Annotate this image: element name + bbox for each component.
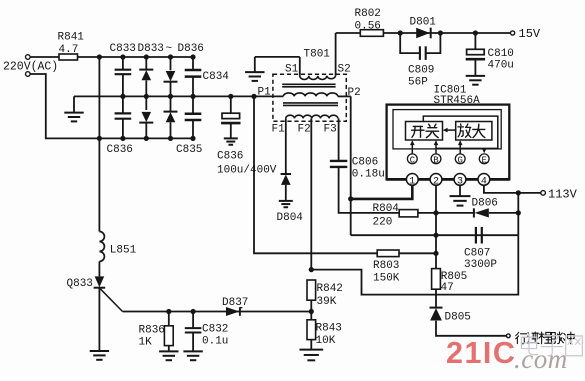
svg-text:C810: C810 xyxy=(488,48,514,60)
svg-text:1K: 1K xyxy=(139,337,153,349)
svg-text:0.18u: 0.18u xyxy=(352,168,385,180)
svg-text:R804: R804 xyxy=(373,203,400,215)
svg-text:C835: C835 xyxy=(176,144,202,156)
svg-text:C807: C807 xyxy=(464,247,490,259)
svg-text:L851: L851 xyxy=(110,244,137,256)
svg-text:STR456A: STR456A xyxy=(434,95,481,107)
svg-text:D801: D801 xyxy=(410,17,437,29)
svg-text:150K: 150K xyxy=(373,273,400,285)
svg-text:D836: D836 xyxy=(178,43,204,55)
svg-text:F1: F1 xyxy=(272,124,286,136)
svg-text:C836: C836 xyxy=(107,144,133,156)
svg-text:C: C xyxy=(410,155,416,165)
svg-text:C836: C836 xyxy=(217,150,243,162)
svg-text:D806: D806 xyxy=(472,198,498,210)
svg-text:~: ~ xyxy=(166,43,173,55)
svg-text:F2: F2 xyxy=(298,124,311,136)
svg-text:10K: 10K xyxy=(316,335,336,347)
svg-text:470u: 470u xyxy=(488,59,514,71)
svg-text:P1: P1 xyxy=(258,86,272,98)
svg-text:F3: F3 xyxy=(324,124,337,136)
svg-text:39K: 39K xyxy=(317,296,337,308)
svg-text:56P: 56P xyxy=(408,77,428,89)
svg-text:R841: R841 xyxy=(58,31,85,43)
svg-text:220: 220 xyxy=(373,216,393,228)
svg-text:113V: 113V xyxy=(548,187,578,201)
svg-text:220V(AC): 220V(AC) xyxy=(3,61,58,74)
svg-text:21IC: 21IC xyxy=(446,336,516,370)
svg-text:0.56: 0.56 xyxy=(355,21,381,33)
svg-text:G: G xyxy=(457,155,462,165)
svg-text:0.1u: 0.1u xyxy=(202,336,228,348)
svg-text:E: E xyxy=(481,155,486,165)
svg-text:D805: D805 xyxy=(445,312,471,324)
svg-text:3300P: 3300P xyxy=(464,259,497,271)
svg-text:47: 47 xyxy=(441,282,454,294)
svg-text:Q833: Q833 xyxy=(67,278,93,290)
svg-text:C833: C833 xyxy=(110,43,136,55)
svg-text:R836: R836 xyxy=(139,325,165,337)
svg-text:C834: C834 xyxy=(203,71,230,83)
svg-text:R803: R803 xyxy=(373,260,399,272)
svg-text:R842: R842 xyxy=(317,283,343,295)
svg-text:S2: S2 xyxy=(338,64,351,76)
svg-text:T801: T801 xyxy=(304,49,331,61)
svg-text:C806: C806 xyxy=(352,156,378,168)
svg-text:R843: R843 xyxy=(316,322,342,334)
svg-text:S1: S1 xyxy=(285,64,299,76)
svg-text:4.7: 4.7 xyxy=(59,44,79,56)
svg-text:D837: D837 xyxy=(222,297,248,309)
svg-text:15V: 15V xyxy=(519,27,541,41)
svg-text:100u/400V: 100u/400V xyxy=(217,164,277,176)
svg-text:C832: C832 xyxy=(202,324,228,336)
svg-text:C809: C809 xyxy=(408,65,434,77)
svg-text:D804: D804 xyxy=(277,212,304,224)
svg-text:R802: R802 xyxy=(355,8,381,20)
svg-text:B: B xyxy=(433,155,439,165)
svg-text:D833: D833 xyxy=(138,43,164,55)
